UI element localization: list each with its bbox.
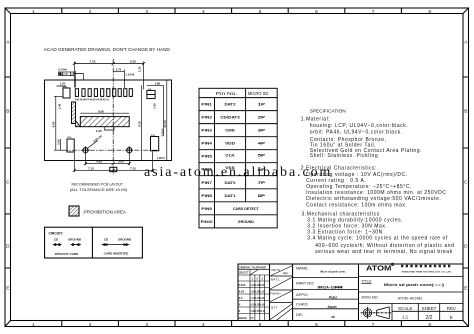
svg-text:SHEET: SHEET [422, 306, 437, 311]
svg-text:1.88: 1.88 [155, 81, 161, 85]
svg-text:CD: CD [148, 89, 152, 91]
title block outline [238, 264, 463, 321]
svg-text:PART NO:: PART NO: [296, 280, 314, 285]
svg-text:CARD INSERTED: CARD INSERTED [104, 252, 130, 256]
svg-text:CIRCUIT:: CIRCUIT: [49, 232, 64, 236]
svg-text:3: 3 [145, 322, 148, 328]
svg-text:0.XXX: 0.XXX [239, 284, 246, 287]
svg-text:1: 1 [32, 9, 35, 15]
svg-text:E: E [450, 315, 453, 320]
svg-text:8P: 8P [258, 194, 267, 198]
svg-text:8: 8 [428, 322, 431, 328]
svg-text:9.90: 9.90 [52, 121, 56, 127]
svg-text:SELECT: SELECT [239, 272, 249, 275]
svg-text:CHKD:: CHKD: [296, 302, 308, 307]
frame right ticks [463, 77, 469, 268]
svg-text:4: 4 [202, 322, 205, 328]
svg-text:SHENZHEN HWW TECHNOLOGY CO.: SHENZHEN HWW TECHNOLOGY CO.,LTD [402, 271, 452, 273]
svg-text:Insulation resistance: 1000M: Insulation resistance: 1000M ohms min. a… [306, 190, 446, 196]
svg-text:MR01A−01✱✱✱: MR01A−01✱✱✱ [317, 286, 342, 290]
hole leader [87, 134, 103, 149]
svg-text:2P: 2P [258, 116, 267, 120]
pin table outline [199, 88, 277, 228]
tolerance table texts [239, 266, 267, 320]
svg-text:D: D [464, 244, 468, 250]
pad BL [67, 139, 74, 152]
svg-text:PIN8: PIN8 [201, 194, 212, 198]
dim 1.88 [147, 85, 164, 136]
svg-text::PROHIBITION AREA: :PROHIBITION AREA [83, 210, 127, 216]
svg-text:±.05±.08±.10: ±.05±.08±.10 [250, 290, 265, 293]
svg-text:6P: 6P [258, 168, 267, 172]
svg-text:PIN6: PIN6 [201, 168, 212, 172]
svg-text:CMD: CMD [225, 129, 235, 133]
svg-text:Shell: Stainless. Pickling: Shell: Stainless. Pickling [310, 153, 379, 159]
svg-text:MAT'L: MAT'L [271, 277, 280, 281]
dim 2.75 [113, 70, 124, 89]
contact pads row [75, 89, 132, 97]
cjk company name [401, 265, 450, 268]
svg-text:3.2 Insertion force: 30N M: 3.2 Insertion force: 30N Max. [307, 224, 387, 230]
pin table verticals [215, 88, 246, 228]
svg-text:±.10±.15±.20: ±.10±.15±.20 [250, 297, 265, 300]
svg-text:7: 7 [372, 322, 375, 328]
svg-text:±.30±.50±1.0: ±.30±.50±1.0 [250, 310, 265, 313]
switch CD open [53, 244, 62, 246]
pad TR [147, 90, 155, 98]
svg-text:4.95: 4.95 [96, 160, 102, 164]
svg-text:5: 5 [259, 322, 262, 328]
svg-text:APPO:: APPO: [296, 292, 308, 297]
svg-text:7.15: 7.15 [90, 60, 96, 64]
svg-text:xh: xh [331, 315, 335, 319]
svg-text:VSS: VSS [225, 166, 236, 170]
svg-text:5P: 5P [258, 154, 267, 158]
svg-text:7P: 7P [258, 181, 267, 185]
frame zone letters right [464, 40, 468, 292]
svg-text:CD/DAT3: CD/DAT3 [220, 116, 240, 120]
svg-text:Jason: Jason [327, 305, 336, 309]
holes center line [63, 149, 160, 151]
svg-text:X.X: X.X [239, 297, 243, 300]
pad TL [63, 88, 70, 98]
svg-text:3: 3 [145, 9, 148, 15]
svg-text:B: B [6, 109, 9, 115]
svg-text:DAT2: DAT2 [225, 103, 236, 107]
svg-text:DWG NO.: DWG NO. [362, 295, 379, 299]
svg-text:ACAD GENERATED DRAWING. DON'T: ACAD GENERATED DRAWING. DON'T CHANGE BY … [44, 47, 170, 53]
svg-text:GROUND: GROUND [238, 220, 255, 224]
svg-text:3.1 Mating durability:10000: 3.1 Mating durability:10000 cycles. [307, 217, 403, 223]
svg-text:serious wear and tear in: serious wear and tear in terminal, No si… [315, 249, 453, 255]
svg-text:Contact resistance: 100m oh: Contact resistance: 100m ohms max. [306, 202, 407, 208]
svg-text:3.Mechanical characteristics: 3.Mechanical characteristics [302, 211, 380, 217]
svg-text:NAME:: NAME: [296, 266, 309, 271]
svg-text:6.25: 6.25 [130, 60, 136, 64]
svg-text:4P: 4P [258, 142, 267, 146]
svg-text:1P: 1P [258, 103, 267, 107]
svg-text:1.10×8: 1.10×8 [126, 73, 135, 77]
svg-text:0.50: 0.50 [63, 73, 68, 76]
svg-text:ATOM−A01482: ATOM−A01482 [398, 296, 423, 300]
frame zone letters left [6, 40, 10, 292]
svg-text:1.Material:: 1.Material: [301, 117, 330, 123]
svg-text:6: 6 [315, 9, 318, 15]
dim 9.00 above hatch [80, 112, 129, 114]
switch closed [102, 244, 130, 246]
dim 1.60 below hatch [105, 127, 114, 131]
svg-text:X.XX: X.XX [239, 290, 245, 293]
hole right [126, 146, 134, 154]
svg-text:SPECIFICATION: SPECIFICATION [310, 109, 347, 115]
tolerance frame [58, 71, 83, 88]
svg-text:PIN5: PIN5 [201, 155, 212, 159]
circuit box outline [45, 227, 143, 258]
svg-text:UNITS: UNITS [271, 268, 280, 272]
svg-text:Operating voltage : 10V AC: Operating voltage : 10V AC(rms)/DC. [306, 172, 408, 178]
svg-text:WITHOUT CARD: WITHOUT CARD [55, 252, 79, 256]
svg-text:2.00×2: 2.00×2 [161, 128, 165, 137]
svg-text:7: 7 [372, 9, 375, 15]
svg-text:0.70×9: 0.70×9 [58, 67, 67, 71]
svg-text:Current rating : 0.5 A.: Current rating : 0.5 A. [306, 178, 366, 184]
svg-text:9.76: 9.76 [138, 121, 142, 127]
pad BR [151, 137, 159, 151]
svg-text:RECOMMENDED PCB LAYOUT: RECOMMENDED PCB LAYOUT [72, 182, 124, 186]
svg-text:D: D [6, 244, 10, 250]
svg-text:8: 8 [428, 9, 431, 15]
svg-text:SCALE: SCALE [398, 306, 412, 311]
svg-text:PIN2: PIN2 [201, 116, 212, 120]
pin table horizontals [199, 98, 277, 215]
svg-text:PIN3: PIN3 [201, 129, 212, 133]
svg-text:6: 6 [315, 322, 318, 328]
svg-text:C: C [6, 180, 10, 186]
bottom tab [110, 167, 117, 171]
projection symbol [361, 307, 392, 319]
frame left ticks [5, 77, 11, 268]
svg-text:GROUND: GROUND [118, 237, 132, 241]
svg-text:Q'TY: Q'TY [271, 305, 278, 309]
svg-text:PIN4: PIN4 [201, 142, 212, 146]
svg-text:DAT0: DAT0 [225, 181, 236, 185]
svg-text:2: 2 [89, 9, 92, 15]
svg-text:DR:: DR: [296, 312, 303, 317]
svg-text:2.45: 2.45 [56, 139, 60, 145]
hole left [82, 146, 90, 154]
svg-text:1.60: 1.60 [96, 129, 102, 133]
svg-text:REV: REV [447, 306, 456, 311]
name rows grid [293, 278, 359, 309]
svg-text:1:1: 1:1 [402, 315, 408, 320]
svg-text:3P: 3P [258, 129, 267, 133]
svg-text:2.75: 2.75 [116, 67, 122, 71]
prohibition block main (hatched) [80, 117, 129, 127]
svg-text:X.: X. [239, 303, 242, 306]
frame zone numbers bottom [32, 322, 431, 328]
tolerance table grid [238, 270, 270, 321]
svg-text:B: B [464, 109, 467, 115]
svg-text:Dielectric withstanding volt: Dielectric withstanding voltage:500 VAC/… [306, 196, 441, 202]
svg-text:7.15: 7.15 [88, 167, 94, 171]
svg-text:1.45: 1.45 [152, 103, 156, 109]
svg-text:2.Electrical Characteristics:: 2.Electrical Characteristics: [301, 165, 377, 171]
title block section dividers [270, 264, 359, 321]
svg-text:9.00: 9.00 [98, 109, 104, 113]
svg-text:Micro sd push conn(□□□): Micro sd push conn(□□□) [384, 283, 444, 287]
svg-text:3.3 Extraction force: 1~30N: 3.3 Extraction force: 1~30N [307, 230, 383, 236]
svg-text:#10 #9 #8 #7 #6 #5 #4 #3 #2 #: #10 #9 #8 #7 #6 #5 #4 #3 #2 #1 [75, 99, 110, 102]
switch GROUND open [71, 244, 82, 246]
svg-text:±1°: ±1° [250, 317, 254, 320]
svg-text:2: 2 [89, 322, 92, 328]
svg-text:E: E [464, 286, 467, 292]
frame top ticks [62, 8, 402, 14]
center line vertical [112, 59, 114, 175]
svg-text:1.20: 1.20 [137, 66, 141, 72]
svg-text:MICRO SD: MICRO SD [248, 91, 268, 96]
svg-text:mm: mm [283, 272, 288, 275]
svg-text:ATOM: ATOM [366, 266, 392, 273]
dim left 9.90 [54, 96, 64, 150]
svg-text:7.15: 7.15 [130, 167, 136, 171]
connector bend [76, 121, 81, 127]
svg-text:VDD: VDD [225, 142, 236, 146]
dim right 9.76 [141, 85, 143, 160]
svg-text:±.20±.30±.50: ±.20±.30±.50 [250, 303, 265, 306]
dim bottom 4.95 / 3.05 [84, 154, 131, 166]
prohibition legend swatch [69, 206, 79, 216]
svg-text:CLK: CLK [225, 154, 235, 158]
svg-text:Micro sd push conn.: Micro sd push conn. [320, 270, 345, 274]
svg-text:±.02±.03±.05: ±.02±.03±.05 [250, 284, 265, 287]
svg-text:GENERAL TOLERANCE: GENERAL TOLERANCE [239, 266, 267, 269]
svg-text:DAT1: DAT1 [225, 194, 236, 198]
svg-text:orbit: PA46, UL94V−0,color: orbit: PA46, UL94V−0,color:black. [310, 130, 403, 136]
dim bottom 7.15 / 7.15 [73, 152, 154, 173]
pcb outline [45, 80, 172, 161]
svg-text:1: 1 [32, 322, 35, 328]
svg-text:E: E [6, 286, 9, 292]
svg-text:3.05: 3.05 [118, 160, 124, 164]
svg-text:3.4 Mating cycle: 10000 cy: 3.4 Mating cycle: 10000 cycles at the sp… [307, 236, 448, 242]
svg-text:1.40: 1.40 [58, 103, 62, 109]
svg-text:PIN10: PIN10 [201, 220, 213, 224]
dim right 10.00 [167, 80, 172, 161]
svg-text:GROUND: GROUND [68, 237, 82, 241]
prohibition strip left (hatched) [72, 102, 76, 124]
svg-text:Pin No.: Pin No. [216, 91, 238, 96]
svg-text:Operating Temperature: −25°C: Operating Temperature: −25°C~+85°C. [306, 184, 412, 190]
svg-text:C: C [464, 180, 468, 186]
svg-text:PIN1: PIN1 [201, 103, 212, 107]
svg-text:CARD DETECT: CARD DETECT [233, 207, 260, 211]
svg-text:TITLE:: TITLE: [361, 279, 372, 283]
svg-text:4: 4 [202, 9, 205, 15]
svg-text:PIN7: PIN7 [201, 181, 212, 185]
svg-text:FINISH: FINISH [270, 292, 280, 296]
frame zone numbers top [32, 9, 431, 15]
svg-text:(ALL TOLERANCE ARE ±0.05): (ALL TOLERANCE ARE ±0.05) [70, 188, 128, 192]
svg-text:Peter: Peter [329, 295, 338, 299]
frame bottom ticks [62, 321, 402, 327]
svg-text:PIN9: PIN9 [201, 207, 212, 211]
svg-text:1.25: 1.25 [60, 82, 66, 86]
svg-text:housing: LCP, UL94V−0,colo: housing: LCP, UL94V−0,color:black. [310, 123, 409, 129]
dim top 7.15 / 6.25 [73, 62, 145, 90]
svg-text:1.20×2: 1.20×2 [157, 156, 166, 160]
right section grid [359, 276, 464, 320]
units/matl/finish/qty cells [270, 266, 293, 321]
svg-text:ANGLE: ANGLE [239, 317, 248, 320]
svg-text:2/2: 2/2 [426, 315, 433, 321]
svg-text:5: 5 [259, 9, 262, 15]
